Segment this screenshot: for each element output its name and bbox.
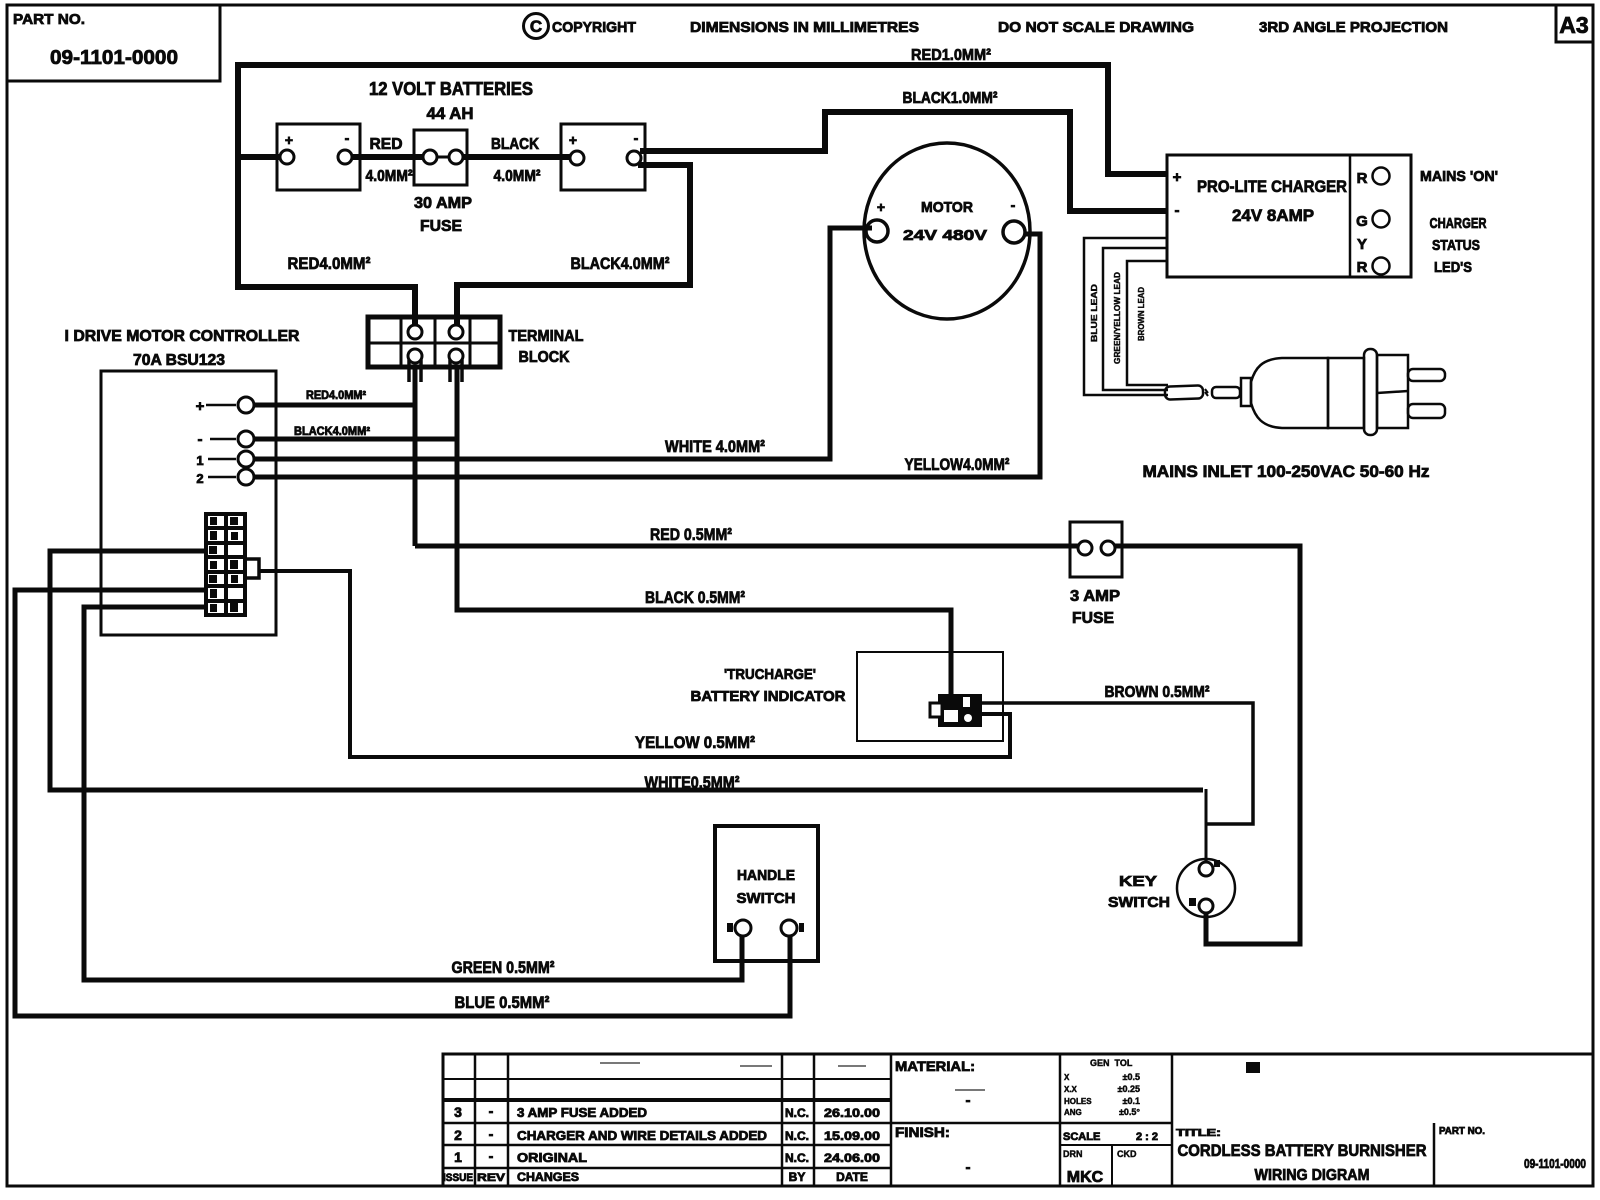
svg-text:Y: Y [1357,236,1367,253]
svg-text:+: + [285,132,293,148]
svg-text:PART NO.: PART NO. [13,11,85,28]
svg-text:X.X: X.X [1064,1085,1078,1094]
svg-text:N.C.: N.C. [785,1106,809,1120]
svg-text:-: - [489,1103,494,1119]
svg-text:09-1101-0000: 09-1101-0000 [1524,1156,1586,1171]
svg-text:BLACK: BLACK [491,136,539,153]
svg-text:DRN: DRN [1063,1149,1083,1159]
svg-text:TITLE:: TITLE: [1176,1128,1221,1139]
svg-text:RED 0.5MM²: RED 0.5MM² [650,525,732,544]
svg-text:WIRING DIGRAM: WIRING DIGRAM [1255,1167,1370,1184]
svg-text:24.06.00: 24.06.00 [824,1151,880,1165]
svg-text:BLACK 0.5MM²: BLACK 0.5MM² [645,588,745,607]
svg-text:15.09.00: 15.09.00 [824,1129,880,1143]
svg-text:-: - [489,1148,494,1164]
svg-text:4.0MM²: 4.0MM² [366,168,413,185]
svg-text:±0.5°: ±0.5° [1119,1107,1140,1117]
svg-text:RED4.0MM²: RED4.0MM² [306,390,366,402]
svg-text:A3: A3 [1559,12,1588,38]
svg-text:2: 2 [196,471,203,486]
svg-text:GEN TOL: GEN TOL [1090,1058,1133,1068]
svg-text:-: - [966,1159,971,1176]
svg-text:3RD ANGLE PROJECTION: 3RD ANGLE PROJECTION [1259,19,1448,36]
svg-text:CORDLESS BATTERY BURNISHER: CORDLESS BATTERY BURNISHER [1178,1141,1427,1160]
svg-text:3 AMP: 3 AMP [1070,588,1120,605]
svg-text:3 AMP FUSE ADDED: 3 AMP FUSE ADDED [517,1105,647,1120]
svg-text:HANDLE: HANDLE [737,867,795,884]
svg-text:'TRUCHARGE': 'TRUCHARGE' [724,666,816,683]
svg-text:GREEN/YELLOW LEAD: GREEN/YELLOW LEAD [1112,272,1122,364]
svg-text:PART NO.: PART NO. [1439,1126,1485,1137]
svg-text:09-1101-0000: 09-1101-0000 [50,47,178,69]
svg-text:BLUE 0.5MM²: BLUE 0.5MM² [455,993,550,1012]
svg-text:R: R [1357,170,1368,187]
svg-text:ANG: ANG [1064,1108,1082,1117]
svg-text:I DRIVE MOTOR CONTROLLER: I DRIVE MOTOR CONTROLLER [65,328,300,345]
svg-text:FUSE: FUSE [1072,610,1114,627]
svg-text:LED'S: LED'S [1434,259,1472,276]
svg-text:MAINS 'ON': MAINS 'ON' [1420,168,1498,185]
svg-text:70A BSU123: 70A BSU123 [133,352,225,369]
svg-text:PRO-LITE CHARGER: PRO-LITE CHARGER [1197,177,1347,196]
svg-text:CHARGER AND WIRE DETAILS ADDED: CHARGER AND WIRE DETAILS ADDED [517,1128,767,1143]
svg-text:30 AMP: 30 AMP [414,195,472,212]
svg-text:±0.5: ±0.5 [1123,1072,1140,1082]
svg-text:SCALE: SCALE [1063,1131,1100,1143]
svg-text:FUSE: FUSE [420,218,462,235]
svg-text:BATTERY INDICATOR: BATTERY INDICATOR [691,688,846,705]
svg-text:RED1.0MM²: RED1.0MM² [911,47,991,64]
svg-text:FINISH:: FINISH: [895,1124,950,1140]
svg-text:RED4.0MM²: RED4.0MM² [288,254,371,273]
svg-text:24V 480V: 24V 480V [903,227,987,244]
svg-text:MKC: MKC [1067,1169,1104,1186]
svg-text:COPYRIGHT: COPYRIGHT [552,19,636,36]
svg-text:4.0MM²: 4.0MM² [494,168,541,185]
svg-text:MATERIAL:: MATERIAL: [895,1058,975,1074]
svg-text:MAINS INLET 100-250VAC 50-60 H: MAINS INLET 100-250VAC 50-60 Hz [1143,462,1430,481]
svg-text:-: - [1175,202,1180,219]
svg-text:2: 2 [454,1127,462,1143]
svg-text:+: + [877,199,885,215]
svg-text:-: - [198,431,203,448]
svg-text:±0.1: ±0.1 [1123,1096,1140,1106]
svg-text:SWITCH: SWITCH [1108,894,1170,911]
svg-text:STATUS: STATUS [1432,237,1480,254]
svg-text:BLOCK: BLOCK [519,349,570,366]
svg-text:-: - [489,1126,494,1142]
svg-text:ORIGINAL: ORIGINAL [517,1150,587,1165]
svg-text:WHITE0.5MM²: WHITE0.5MM² [645,773,740,792]
svg-text:44 AH: 44 AH [427,104,474,123]
svg-text:X: X [1064,1073,1070,1082]
svg-text:+: + [569,132,577,148]
svg-text:BY: BY [789,1170,806,1184]
svg-text:BLACK4.0MM²: BLACK4.0MM² [571,254,670,273]
svg-text:SWITCH: SWITCH [737,890,796,907]
svg-text:YELLOW4.0MM²: YELLOW4.0MM² [905,455,1010,474]
svg-text:+: + [1173,169,1182,186]
svg-text:DATE: DATE [836,1170,868,1184]
svg-text:YELLOW 0.5MM²: YELLOW 0.5MM² [635,733,755,752]
svg-text:-: - [345,130,350,146]
svg-text:RED: RED [370,136,403,153]
svg-text:+: + [196,398,205,415]
svg-text:N.C.: N.C. [785,1129,809,1143]
svg-text:R: R [1357,259,1368,276]
svg-text:-: - [966,1092,971,1109]
svg-text:BROWN LEAD: BROWN LEAD [1136,287,1146,341]
svg-text:C: C [530,17,542,36]
svg-text:G: G [1356,213,1368,230]
svg-text:WHITE 4.0MM²: WHITE 4.0MM² [665,437,765,456]
svg-text:HOLES: HOLES [1064,1097,1092,1106]
svg-text:DIMENSIONS IN MILLIMETRES: DIMENSIONS IN MILLIMETRES [690,19,919,36]
svg-text:26.10.00: 26.10.00 [824,1106,880,1120]
svg-text:CHANGES: CHANGES [517,1170,579,1184]
svg-text:3: 3 [454,1104,462,1120]
svg-text:BLUE LEAD: BLUE LEAD [1089,284,1099,342]
svg-text:±0.25: ±0.25 [1118,1084,1140,1094]
svg-text:1: 1 [454,1149,462,1165]
svg-text:1: 1 [196,453,203,468]
svg-text:BROWN 0.5MM²: BROWN 0.5MM² [1105,684,1210,701]
svg-text:BLACK1.0MM²: BLACK1.0MM² [903,90,998,107]
svg-text:DO NOT SCALE DRAWING: DO NOT SCALE DRAWING [998,19,1194,36]
svg-text:KEY: KEY [1119,873,1157,890]
svg-text:CHARGER: CHARGER [1430,215,1487,232]
svg-text:24V 8AMP: 24V 8AMP [1232,206,1314,225]
svg-text:N.C.: N.C. [785,1151,809,1165]
svg-text:ISSUE: ISSUE [443,1172,473,1184]
svg-text:REV: REV [477,1172,506,1184]
svg-text:-: - [1011,197,1016,213]
svg-text:12 VOLT BATTERIES: 12 VOLT BATTERIES [369,79,533,99]
svg-text:MOTOR: MOTOR [921,199,973,216]
svg-text:TERMINAL: TERMINAL [509,328,584,345]
svg-text:BLACK4.0MM²: BLACK4.0MM² [294,426,370,438]
svg-text:2 : 2: 2 : 2 [1136,1131,1158,1143]
svg-text:GREEN 0.5MM²: GREEN 0.5MM² [452,958,555,977]
svg-text:-: - [634,130,639,146]
svg-text:CKD: CKD [1117,1149,1137,1159]
